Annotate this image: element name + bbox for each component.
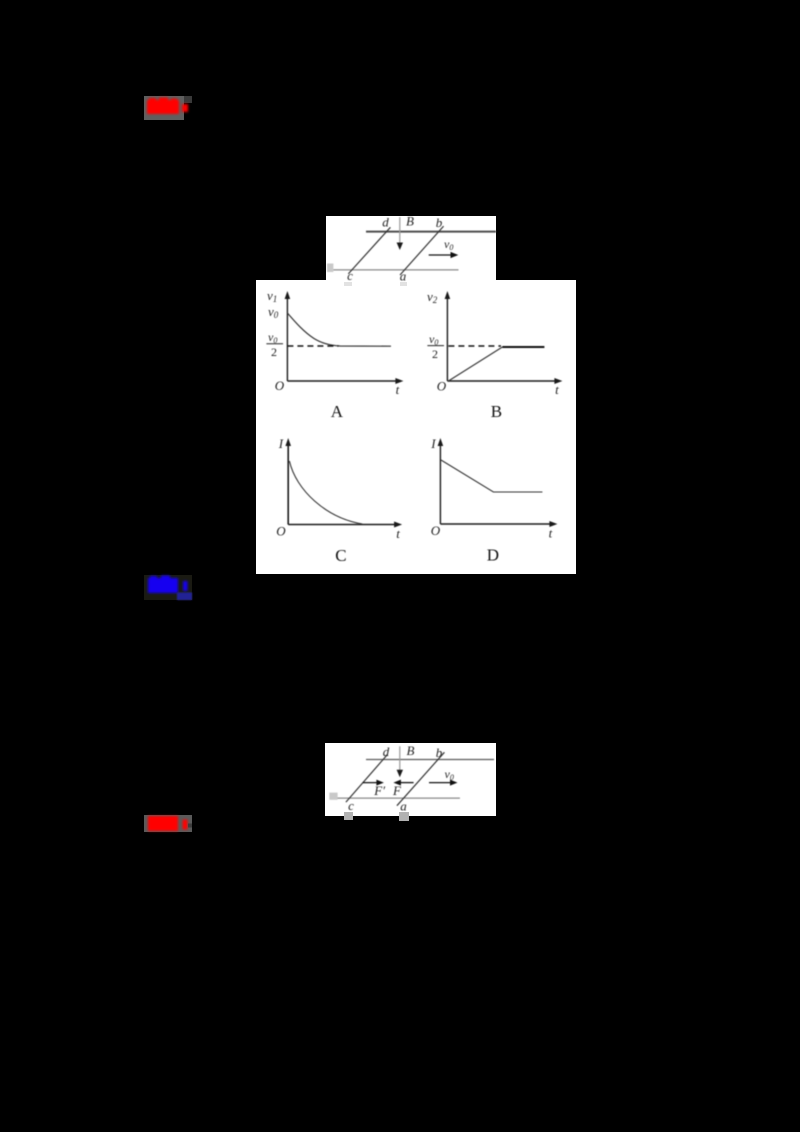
graph B dashed line — [448, 345, 501, 347]
graph D y-axis — [439, 443, 441, 524]
svg-text:I: I — [278, 436, 284, 451]
top rail — [366, 231, 496, 233]
graph C y-axis — [287, 443, 289, 525]
figure 2: four graphs A-D — [256, 280, 576, 574]
svg-text:v0: v0 — [445, 767, 454, 782]
svg-text:B: B — [491, 402, 502, 421]
small dark z mark — [188, 824, 192, 828]
graph B y-axis — [446, 296, 448, 381]
svg-text:d: d — [383, 744, 390, 759]
gray smudge below figure 3 right — [399, 812, 409, 822]
bar dc — [348, 227, 390, 274]
graph A x-axis — [287, 380, 398, 382]
gray smudge at rail end — [327, 264, 333, 273]
bar ab — [397, 752, 445, 805]
svg-text:O: O — [276, 524, 286, 539]
svg-text:t: t — [396, 526, 400, 541]
graph C exponential decay curve I — [289, 461, 362, 524]
badge 3 (red on gray) — [144, 815, 192, 832]
svg-text:b: b — [436, 216, 443, 230]
top rail — [366, 759, 494, 761]
svg-text:d: d — [382, 216, 389, 230]
svg-text:b: b — [436, 745, 443, 760]
faint smudge below fig1 label c — [344, 282, 352, 287]
svg-text:A: A — [331, 402, 344, 421]
svg-text:v0: v0 — [268, 304, 279, 320]
svg-text:v0: v0 — [429, 332, 438, 347]
svg-text:t: t — [549, 526, 553, 541]
figure 3: rails with force arrows F, F' — [325, 743, 496, 816]
graph D polyline I — [441, 460, 542, 492]
gray smudge below figure 3 left — [344, 812, 354, 820]
svg-text:F′: F′ — [373, 783, 385, 798]
graph A dashed line at v0/2 — [287, 345, 338, 347]
graph B x-axis — [447, 380, 557, 382]
svg-text:I: I — [430, 436, 436, 451]
F force arrow (left) — [398, 782, 413, 784]
svg-text:D: D — [487, 546, 499, 565]
bottom rail — [333, 269, 458, 271]
svg-text:v0: v0 — [268, 330, 277, 345]
svg-text:2: 2 — [271, 345, 277, 359]
graph B horizontal bold line — [502, 346, 544, 348]
badge 2 (blue on dark) — [144, 575, 192, 600]
bottom rail — [335, 797, 460, 799]
bar ab — [400, 226, 444, 275]
svg-text:2: 2 — [432, 347, 438, 361]
v0 arrow (right) — [429, 782, 453, 784]
graph A y-axis — [286, 296, 288, 381]
svg-text:O: O — [275, 378, 285, 393]
svg-text:O: O — [437, 379, 447, 394]
graph D x-axis — [440, 523, 552, 525]
v0 arrow (right) — [429, 254, 453, 256]
svg-text:O: O — [431, 523, 441, 538]
svg-text:B: B — [406, 216, 414, 229]
svg-text:t: t — [555, 382, 559, 397]
faint smudge below fig1 label a — [400, 282, 407, 287]
figure 1: rails with bars ab,cd moving with v0 — [326, 216, 496, 280]
F' force arrow (right) — [363, 782, 379, 784]
svg-text:F: F — [392, 783, 402, 798]
bar dc — [346, 755, 388, 803]
svg-text:v1: v1 — [267, 288, 277, 304]
gray smudge at rail end — [329, 793, 337, 800]
graph C x-axis — [288, 524, 397, 526]
badge 1 (red text on gray) — [144, 96, 184, 120]
graph A decaying curve v1 — [287, 313, 391, 346]
B field arrow (down) — [399, 746, 401, 772]
svg-text:v2: v2 — [427, 289, 438, 305]
B field arrow (down) — [399, 217, 401, 245]
svg-text:t: t — [396, 382, 400, 397]
svg-text:C: C — [335, 546, 346, 565]
svg-text:v0: v0 — [444, 237, 453, 252]
graph B rising line — [448, 347, 502, 381]
svg-text:B: B — [407, 743, 415, 758]
